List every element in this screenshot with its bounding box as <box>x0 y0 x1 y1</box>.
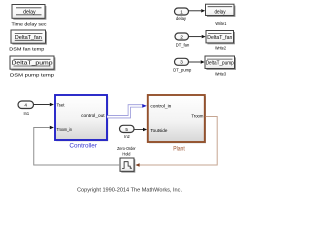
wire control_out to control_in (double line) <box>107 104 147 117</box>
wire In2 to Plant Toutside <box>134 128 147 131</box>
svg-text:control_in: control_in <box>150 104 171 110</box>
svg-text:DeltaT_fan: DeltaT_fan <box>207 35 232 41</box>
svg-text:Time delay sec: Time delay sec <box>12 21 48 27</box>
svg-text:4: 4 <box>24 103 27 108</box>
svg-text:DeltaT_pump: DeltaT_pump <box>206 61 234 67</box>
wire In1 to Controller Tset <box>34 103 54 106</box>
svg-text:2: 2 <box>180 34 183 39</box>
inport 3 oval <box>175 58 189 65</box>
svg-text:delay: delay <box>215 9 226 15</box>
data store write Write3 <box>205 56 236 70</box>
subsystem Plant <box>148 95 206 143</box>
svg-text:Copyright 1990-2014 The MathWo: Copyright 1990-2014 The MathWorks, Inc. <box>77 187 182 193</box>
svg-text:Write3: Write3 <box>215 72 226 78</box>
svg-text:3: 3 <box>180 60 183 65</box>
data store memory B2 "DeltaT_fan" <box>11 30 47 45</box>
zero-order hold block (flipped) <box>120 158 135 173</box>
svg-text:Controller: Controller <box>69 144 97 150</box>
svg-text:5: 5 <box>125 127 128 132</box>
svg-text:Write2: Write2 <box>215 45 226 51</box>
subsystem Controller <box>55 95 108 141</box>
inport In2 oval (port 5) <box>120 125 135 132</box>
svg-text:Zero-Order: Zero-Order <box>117 146 136 152</box>
svg-text:Troom_in: Troom_in <box>57 127 73 133</box>
svg-text:Troom: Troom <box>191 114 203 120</box>
svg-text:delay: delay <box>176 16 186 22</box>
svg-text:DSM pump temp: DSM pump temp <box>10 73 54 79</box>
svg-text:In1: In1 <box>24 111 30 117</box>
svg-text:DeltaT_pump: DeltaT_pump <box>12 61 53 67</box>
svg-text:DeltaT_fan: DeltaT_fan <box>15 35 42 41</box>
wire Zero-Order Hold to Controller Troom_in <box>34 126 120 165</box>
inport In1 oval (port 4) <box>18 101 34 109</box>
label Zero-Order Hold <box>117 146 136 158</box>
svg-text:delay: delay <box>23 9 36 15</box>
wire oval3 to Write3 <box>189 60 205 63</box>
data store write Write1 <box>206 4 236 17</box>
svg-text:Tset: Tset <box>57 102 66 108</box>
inport 2 oval <box>175 33 189 40</box>
data store memory B3 "DeltaT_pump" <box>10 56 55 71</box>
svg-text:Toutside: Toutside <box>150 128 167 134</box>
svg-text:DT_fan: DT_fan <box>176 42 190 48</box>
svg-text:Hold: Hold <box>122 151 130 157</box>
svg-text:In2: In2 <box>124 134 130 140</box>
svg-text:1: 1 <box>180 9 183 14</box>
svg-text:DSM fan temp: DSM fan temp <box>9 46 44 52</box>
svg-text:Plant: Plant <box>173 147 185 153</box>
svg-text:control_out: control_out <box>81 113 105 119</box>
inport 1 oval <box>175 8 189 15</box>
wire oval2 to Write2 <box>189 35 206 38</box>
wire oval1 to Write1 <box>189 9 206 12</box>
data store write Write2 <box>206 31 235 45</box>
svg-text:DT_pump: DT_pump <box>173 67 191 73</box>
svg-text:Write1: Write1 <box>215 21 226 27</box>
data store memory B1 "delay" <box>12 5 46 20</box>
wire Plant Troom feedback <box>135 117 217 167</box>
